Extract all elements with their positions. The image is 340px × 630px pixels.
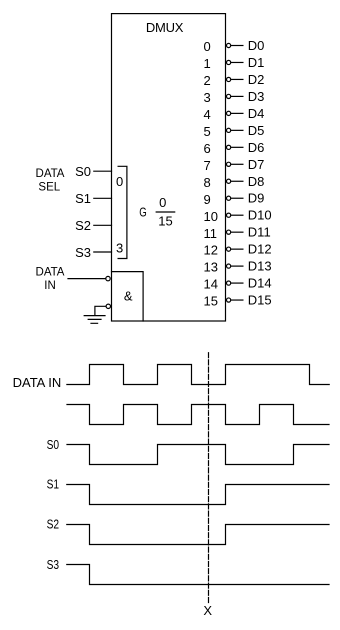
svg-text:S2: S2 xyxy=(47,518,60,532)
inversion bubble on DATA IN pin xyxy=(106,276,110,280)
svg-text:G: G xyxy=(139,205,147,220)
waveform S2 xyxy=(67,525,329,545)
wire output 12 to D12 xyxy=(231,248,243,250)
wire output 14 to D14 xyxy=(231,282,243,284)
wire select S0 xyxy=(94,170,112,172)
inversion bubble output 4 xyxy=(227,111,231,115)
waveform S1 xyxy=(67,485,329,505)
waveform DATA IN xyxy=(67,365,329,385)
svg-text:8: 8 xyxy=(204,175,211,190)
svg-text:1: 1 xyxy=(204,56,211,71)
svg-text:D2: D2 xyxy=(248,72,265,87)
svg-text:D4: D4 xyxy=(248,106,265,121)
wire output 9 to D9 xyxy=(231,197,243,199)
inversion bubble output 3 xyxy=(227,94,231,98)
svg-text:DATA: DATA xyxy=(36,168,65,180)
svg-text:7: 7 xyxy=(204,158,211,173)
svg-text:D6: D6 xyxy=(248,140,265,155)
svg-text:0: 0 xyxy=(204,39,211,54)
svg-text:D1: D1 xyxy=(248,55,265,70)
inversion bubble output 2 xyxy=(227,77,231,81)
inversion bubble output 7 xyxy=(227,162,231,166)
svg-text:14: 14 xyxy=(204,277,218,292)
wire output 1 to D1 xyxy=(231,61,243,63)
svg-text:12: 12 xyxy=(204,243,218,258)
inversion bubble output 13 xyxy=(227,264,231,268)
inversion bubble output 12 xyxy=(227,247,231,251)
inversion bubble output 0 xyxy=(227,43,231,47)
svg-text:S1: S1 xyxy=(75,191,91,206)
inversion bubble output 14 xyxy=(227,281,231,285)
svg-text:SEL: SEL xyxy=(38,181,60,193)
svg-text:10: 10 xyxy=(204,209,218,224)
inversion bubble output 9 xyxy=(227,196,231,200)
inversion bubble output 1 xyxy=(227,60,231,64)
svg-text:D14: D14 xyxy=(248,276,272,291)
wire output 13 to D13 xyxy=(231,265,243,267)
svg-text:13: 13 xyxy=(204,260,218,275)
svg-text:D7: D7 xyxy=(248,157,265,172)
inversion bubble output 15 xyxy=(227,298,231,302)
svg-text:5: 5 xyxy=(204,124,211,139)
svg-text:&: & xyxy=(124,289,133,304)
inversion bubble output 8 xyxy=(227,179,231,183)
select range bracket 0..3 xyxy=(118,166,127,258)
waveform S3 xyxy=(67,565,329,585)
svg-text:S3: S3 xyxy=(75,245,91,260)
svg-text:4: 4 xyxy=(204,107,211,122)
wire output 11 to D11 xyxy=(231,231,243,233)
time marker X dashed line xyxy=(208,353,210,603)
svg-text:D15: D15 xyxy=(248,293,272,308)
wire output 5 to D5 xyxy=(231,129,243,131)
inversion bubble output 5 xyxy=(227,128,231,132)
wire output 2 to D2 xyxy=(231,78,243,80)
svg-text:6: 6 xyxy=(204,141,211,156)
svg-text:DATA: DATA xyxy=(36,267,65,279)
svg-text:2: 2 xyxy=(204,73,211,88)
wire select S2 xyxy=(94,224,112,226)
waveform S0 xyxy=(67,445,329,465)
svg-text:0: 0 xyxy=(159,195,166,210)
wire output 6 to D6 xyxy=(231,146,243,148)
inversion bubble output 10 xyxy=(227,213,231,217)
svg-text:S2: S2 xyxy=(75,218,91,233)
wire enable to ground xyxy=(95,306,106,315)
inversion bubble output 11 xyxy=(227,230,231,234)
wire output 10 to D10 xyxy=(231,214,243,216)
demultiplexer U1 outline xyxy=(112,14,226,321)
svg-text:D10: D10 xyxy=(248,208,272,223)
svg-text:DATA IN: DATA IN xyxy=(13,375,62,390)
svg-text:S3: S3 xyxy=(47,558,60,572)
waveform clock (unlabeled) xyxy=(67,405,329,425)
wire output 4 to D4 xyxy=(231,112,243,114)
svg-text:S0: S0 xyxy=(75,164,91,179)
svg-text:D8: D8 xyxy=(248,174,265,189)
wire output 0 to D0 xyxy=(231,45,243,47)
svg-text:0: 0 xyxy=(116,174,123,189)
svg-text:D11: D11 xyxy=(248,225,271,240)
inversion bubble on enable pin xyxy=(106,304,110,308)
wire output 15 to D15 xyxy=(231,299,243,301)
svg-text:D5: D5 xyxy=(248,123,265,138)
wire select S1 xyxy=(94,197,112,199)
svg-text:S0: S0 xyxy=(47,438,60,452)
wire output 7 to D7 xyxy=(231,163,243,165)
svg-text:X: X xyxy=(203,603,212,618)
svg-text:D13: D13 xyxy=(248,259,272,274)
svg-text:3: 3 xyxy=(116,240,123,255)
wire output 3 to D3 xyxy=(231,95,243,97)
svg-text:3: 3 xyxy=(204,90,211,105)
svg-text:11: 11 xyxy=(204,226,218,241)
svg-text:9: 9 xyxy=(204,192,211,207)
wire output 8 to D8 xyxy=(231,180,243,182)
wire select S3 xyxy=(94,251,112,253)
inversion bubble output 6 xyxy=(227,145,231,149)
svg-text:IN: IN xyxy=(44,280,56,292)
svg-text:S1: S1 xyxy=(47,478,60,492)
svg-text:15: 15 xyxy=(204,294,218,309)
svg-text:15: 15 xyxy=(158,214,172,229)
svg-text:D3: D3 xyxy=(248,89,265,104)
svg-text:D12: D12 xyxy=(248,242,272,257)
svg-text:DMUX: DMUX xyxy=(146,20,184,35)
ground symbol xyxy=(84,316,105,324)
svg-text:D0: D0 xyxy=(248,38,265,53)
AND gate G1 (enable) box xyxy=(112,272,144,321)
wire DATA IN xyxy=(68,278,105,280)
svg-text:D9: D9 xyxy=(248,191,265,206)
